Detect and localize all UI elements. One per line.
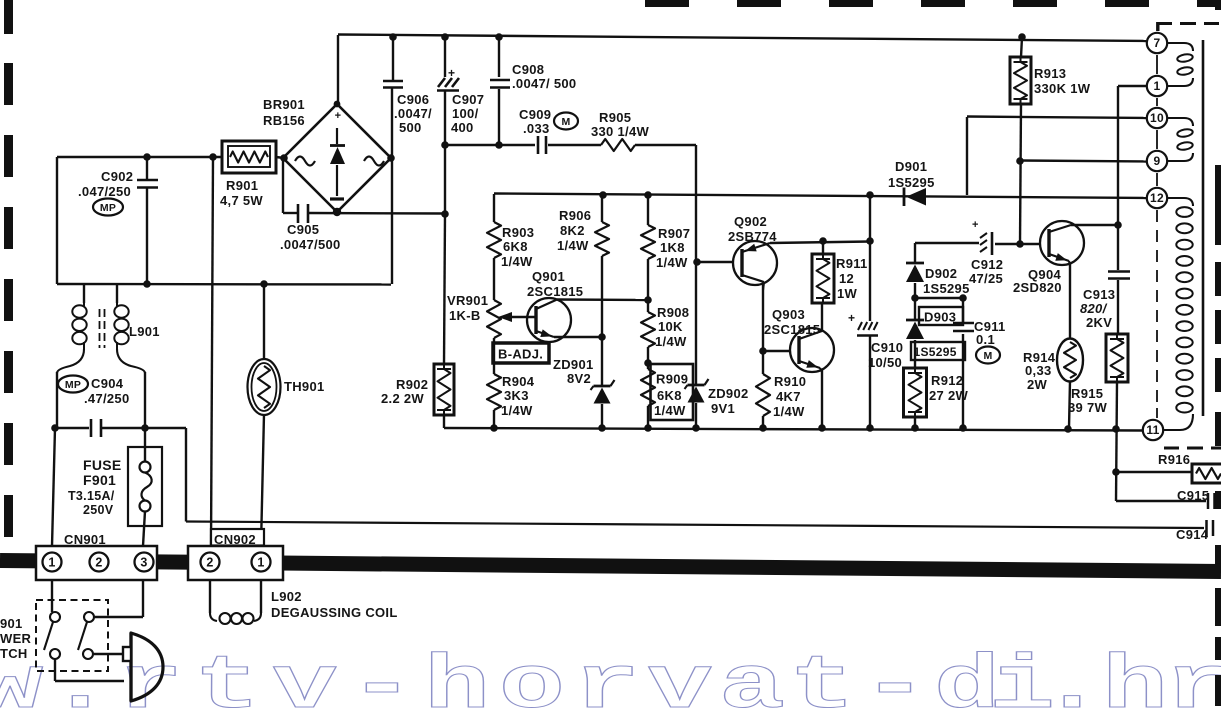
svg-text:C914: C914 (1176, 527, 1209, 542)
svg-text:330 1/4W: 330 1/4W (591, 124, 649, 139)
svg-text:MP: MP (100, 202, 116, 214)
svg-text:ZD901: ZD901 (553, 357, 594, 372)
svg-text:C909: C909 (519, 107, 551, 122)
svg-text:10K: 10K (658, 319, 683, 334)
svg-text:1/4W: 1/4W (501, 403, 533, 418)
svg-text:R915: R915 (1071, 386, 1103, 401)
svg-text:+: + (335, 110, 342, 122)
svg-text:0,33: 0,33 (1025, 363, 1052, 378)
svg-text:+: + (972, 219, 979, 231)
svg-text:.047/250: .047/250 (78, 184, 131, 199)
svg-text:2SD820: 2SD820 (1013, 280, 1062, 295)
svg-text:400: 400 (451, 120, 474, 135)
svg-text:D901: D901 (895, 159, 927, 174)
svg-text:C912: C912 (971, 257, 1003, 272)
svg-text:1: 1 (257, 556, 264, 570)
svg-text:C905: C905 (287, 222, 319, 237)
svg-text:500: 500 (399, 120, 422, 135)
svg-text:8V2: 8V2 (567, 371, 591, 386)
svg-text:901: 901 (0, 616, 23, 631)
svg-text:B-ADJ.: B-ADJ. (498, 347, 543, 362)
svg-text:1S5295: 1S5295 (914, 345, 957, 359)
svg-text:R912: R912 (931, 373, 963, 388)
svg-text:L901: L901 (129, 324, 160, 339)
svg-text:12: 12 (839, 271, 854, 286)
svg-text:1/4W: 1/4W (773, 404, 805, 419)
svg-text:C910: C910 (871, 340, 903, 355)
svg-text:T3.15A/: T3.15A/ (68, 489, 115, 503)
svg-text:11: 11 (1146, 423, 1159, 437)
svg-text:M: M (983, 350, 992, 362)
svg-text:1/4W: 1/4W (557, 238, 589, 253)
svg-text:2SC1815: 2SC1815 (527, 284, 583, 299)
svg-text:CN902: CN902 (214, 532, 256, 547)
svg-text:+: + (848, 311, 855, 325)
svg-text:M: M (561, 116, 570, 128)
svg-text:C908: C908 (512, 62, 544, 77)
svg-text:R904: R904 (502, 374, 535, 389)
svg-text:Q902: Q902 (734, 214, 767, 229)
svg-text:3: 3 (140, 556, 147, 570)
svg-text:1/4W: 1/4W (654, 403, 686, 418)
svg-text:2SB774: 2SB774 (728, 229, 777, 244)
svg-text:100/: 100/ (452, 106, 479, 121)
svg-text:WER: WER (0, 631, 32, 646)
svg-text:47/25: 47/25 (969, 271, 1003, 286)
svg-text:10/50: 10/50 (868, 355, 902, 370)
svg-text:DEGAUSSING COIL: DEGAUSSING COIL (271, 605, 398, 620)
svg-text:6K8: 6K8 (503, 239, 528, 254)
svg-text:39 7W: 39 7W (1068, 400, 1108, 415)
svg-text:D902: D902 (925, 266, 957, 281)
svg-text:MP: MP (65, 379, 81, 391)
svg-text:R911: R911 (836, 256, 868, 271)
svg-text:7: 7 (1154, 36, 1161, 50)
svg-text:F901: F901 (83, 472, 116, 488)
svg-text:1S5295: 1S5295 (923, 281, 970, 296)
svg-text:TH901: TH901 (284, 379, 325, 394)
svg-text:2: 2 (206, 556, 213, 570)
svg-text:D903: D903 (924, 310, 956, 325)
svg-text:3K3: 3K3 (504, 388, 529, 403)
svg-text:R902: R902 (396, 377, 428, 392)
svg-text:12: 12 (1150, 191, 1164, 205)
svg-text:C915: C915 (1177, 488, 1209, 503)
svg-text:1W: 1W (837, 286, 858, 301)
svg-text:.0047/: .0047/ (394, 106, 432, 121)
svg-text:.033: .033 (523, 121, 550, 136)
svg-text:.47/250: .47/250 (84, 391, 129, 406)
svg-text:RB156: RB156 (263, 113, 305, 128)
svg-text:1/4W: 1/4W (501, 254, 533, 269)
svg-text:2SC1815: 2SC1815 (764, 322, 820, 337)
svg-text:R907: R907 (658, 226, 690, 241)
svg-text:1S5295: 1S5295 (888, 175, 935, 190)
svg-text:9: 9 (1154, 154, 1161, 168)
svg-text:10: 10 (1150, 111, 1164, 125)
svg-text:2.2 2W: 2.2 2W (381, 391, 424, 406)
svg-text:R908: R908 (657, 305, 689, 320)
svg-text:27 2W: 27 2W (929, 388, 969, 403)
svg-text:C906: C906 (397, 92, 429, 107)
svg-text:VR901: VR901 (447, 293, 488, 308)
svg-text:L902: L902 (271, 589, 302, 604)
svg-text:R910: R910 (774, 374, 806, 389)
svg-text:330K 1W: 330K 1W (1034, 81, 1091, 96)
svg-text:2W: 2W (1027, 377, 1048, 392)
svg-text:TCH: TCH (0, 646, 28, 661)
svg-text:250V: 250V (83, 503, 114, 517)
svg-text:R913: R913 (1034, 66, 1066, 81)
svg-text:2: 2 (95, 556, 102, 570)
svg-text:.0047/ 500: .0047/ 500 (512, 76, 576, 91)
svg-text:C904: C904 (91, 376, 124, 391)
svg-text:2KV: 2KV (1086, 315, 1112, 330)
svg-text:Q903: Q903 (772, 307, 805, 322)
svg-text:R905: R905 (599, 110, 631, 125)
svg-text:+: + (448, 66, 455, 80)
svg-text:1/4W: 1/4W (655, 334, 687, 349)
svg-text:820/: 820/ (1080, 301, 1108, 316)
svg-text:R916: R916 (1158, 452, 1190, 467)
svg-text:C907: C907 (452, 92, 484, 107)
svg-text:4K7: 4K7 (776, 389, 801, 404)
svg-text:Q901: Q901 (532, 269, 565, 284)
svg-text:1/4W: 1/4W (656, 255, 688, 270)
svg-text:1: 1 (48, 556, 55, 570)
svg-text:ZD902: ZD902 (708, 386, 749, 401)
svg-text:CN901: CN901 (64, 532, 106, 547)
svg-text:BR901: BR901 (263, 97, 305, 112)
svg-text:9V1: 9V1 (711, 401, 735, 416)
svg-text:R906: R906 (559, 208, 591, 223)
svg-text:C902: C902 (101, 169, 133, 184)
svg-text:0.1: 0.1 (976, 332, 995, 347)
svg-text:1K8: 1K8 (660, 240, 685, 255)
svg-text:R909: R909 (656, 372, 688, 387)
svg-text:R901: R901 (226, 178, 258, 193)
svg-text:FUSE: FUSE (83, 457, 122, 473)
svg-text:1: 1 (1154, 79, 1161, 93)
svg-text:4,7 5W: 4,7 5W (220, 193, 263, 208)
svg-text:R903: R903 (502, 225, 534, 240)
svg-text:6K8: 6K8 (657, 388, 682, 403)
svg-text:C913: C913 (1083, 287, 1115, 302)
svg-text:1K-B: 1K-B (449, 308, 481, 323)
svg-text:8K2: 8K2 (560, 223, 585, 238)
svg-text:.0047/500: .0047/500 (280, 237, 341, 252)
